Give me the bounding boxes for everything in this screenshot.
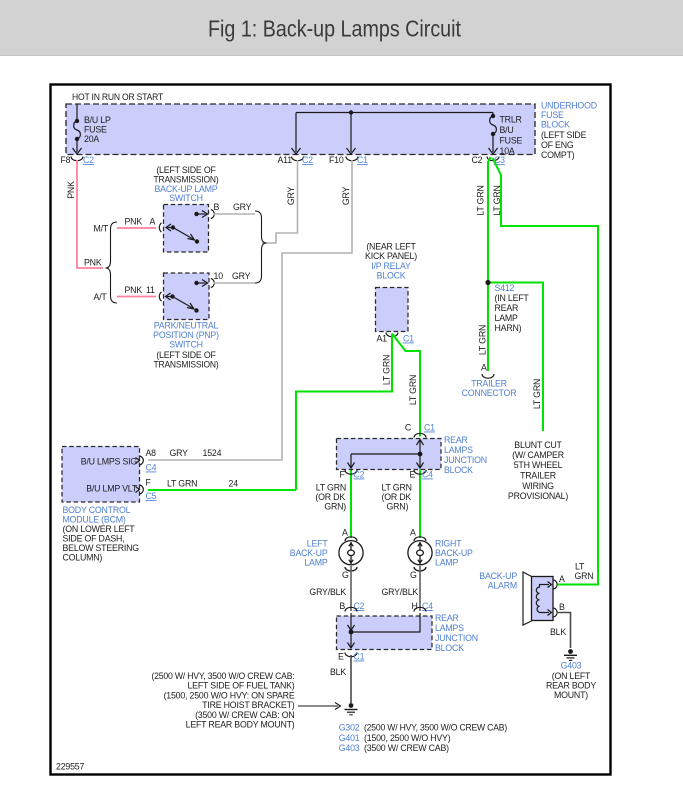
svg-text:MOUNT): MOUNT) — [554, 690, 588, 700]
svg-text:11: 11 — [146, 285, 155, 295]
svg-text:C5: C5 — [146, 491, 157, 501]
svg-text:TRAILER: TRAILER — [520, 471, 556, 481]
svg-text:(NEAR LEFT: (NEAR LEFT — [366, 242, 416, 252]
svg-text:LAMP: LAMP — [435, 558, 458, 568]
svg-text:C2: C2 — [472, 155, 483, 165]
svg-text:10: 10 — [214, 271, 224, 281]
svg-text:MODULE (BCM): MODULE (BCM) — [63, 515, 126, 525]
svg-text:BELOW STEERING: BELOW STEERING — [63, 543, 140, 553]
svg-text:B/U LMPS SIG: B/U LMPS SIG — [81, 457, 138, 467]
svg-text:LT GRN: LT GRN — [478, 325, 488, 355]
svg-text:C: C — [405, 423, 412, 433]
svg-text:REAR: REAR — [435, 613, 459, 623]
svg-text:Fig 1: Back-up Lamps Circuit: Fig 1: Back-up Lamps Circuit — [208, 16, 462, 42]
svg-text:G: G — [342, 570, 349, 580]
svg-text:A11: A11 — [278, 155, 293, 165]
svg-text:F10: F10 — [329, 155, 344, 165]
svg-text:UNDERHOOD: UNDERHOOD — [541, 101, 597, 111]
svg-text:LAMPS: LAMPS — [444, 445, 473, 455]
svg-text:GRY: GRY — [232, 271, 251, 281]
svg-text:LT: LT — [575, 562, 585, 572]
svg-text:(ON LEFT: (ON LEFT — [552, 671, 591, 681]
svg-text:HOT IN RUN OR START: HOT IN RUN OR START — [72, 92, 164, 102]
svg-text:BLOCK: BLOCK — [541, 120, 570, 130]
svg-text:TIRE HOIST BRACKET): TIRE HOIST BRACKET) — [202, 700, 295, 710]
svg-text:REAR: REAR — [444, 435, 468, 445]
svg-text:24: 24 — [229, 479, 239, 489]
svg-text:229557: 229557 — [56, 762, 84, 772]
svg-text:PNK: PNK — [84, 258, 102, 268]
svg-text:JUNCTION: JUNCTION — [444, 455, 487, 465]
svg-text:LT GRN: LT GRN — [382, 355, 392, 385]
svg-text:(LEFT SIDE: (LEFT SIDE — [541, 130, 587, 140]
svg-text:(IN LEFT: (IN LEFT — [495, 293, 530, 303]
svg-text:LT GRN: LT GRN — [408, 375, 418, 405]
svg-text:B/U: B/U — [500, 125, 514, 135]
svg-text:LAMP: LAMP — [304, 558, 327, 568]
svg-text:LT GRN: LT GRN — [532, 379, 542, 409]
svg-text:PNK: PNK — [125, 217, 143, 227]
svg-text:POSITION (PNP): POSITION (PNP) — [153, 330, 219, 340]
svg-text:C1: C1 — [357, 155, 368, 165]
svg-text:FUSE: FUSE — [500, 136, 523, 146]
svg-text:SIDE OF DASH,: SIDE OF DASH, — [63, 534, 125, 544]
svg-text:OF ENG: OF ENG — [541, 140, 574, 150]
svg-text:(LEFT SIDE OF: (LEFT SIDE OF — [156, 165, 216, 175]
svg-text:A: A — [559, 574, 565, 584]
svg-text:GRN): GRN) — [324, 502, 346, 512]
svg-text:LEFT REAR BODY MOUNT): LEFT REAR BODY MOUNT) — [186, 720, 295, 730]
svg-text:C1: C1 — [424, 423, 435, 433]
svg-text:BLOCK: BLOCK — [435, 643, 464, 653]
svg-text:A: A — [342, 528, 348, 538]
svg-text:LEFT SIDE OF FUEL TANK): LEFT SIDE OF FUEL TANK) — [187, 681, 294, 691]
svg-text:F: F — [340, 470, 346, 480]
svg-text:PROVISIONAL): PROVISIONAL) — [508, 491, 568, 501]
svg-text:LT GRN: LT GRN — [316, 483, 346, 493]
svg-text:SWITCH: SWITCH — [169, 340, 203, 350]
svg-text:G403: G403 — [561, 661, 582, 671]
svg-text:C4: C4 — [422, 601, 433, 611]
svg-text:A: A — [410, 528, 416, 538]
svg-text:C1: C1 — [354, 652, 365, 662]
svg-text:(1500, 2500 W/O HVY): (1500, 2500 W/O HVY) — [364, 733, 451, 743]
svg-text:(W/ CAMPER: (W/ CAMPER — [512, 450, 564, 460]
svg-text:A/T: A/T — [94, 292, 108, 302]
svg-text:(LEFT SIDE OF: (LEFT SIDE OF — [156, 350, 216, 360]
svg-text:A8: A8 — [146, 448, 157, 458]
svg-text:RIGHT: RIGHT — [435, 539, 462, 549]
svg-text:(3500 W/ CREW CAB): (3500 W/ CREW CAB) — [364, 743, 449, 753]
svg-text:FUSE: FUSE — [84, 125, 107, 135]
svg-text:TRAILER: TRAILER — [471, 379, 507, 389]
svg-text:ALARM: ALARM — [488, 581, 517, 591]
svg-text:C4: C4 — [146, 463, 157, 473]
svg-text:LAMP: LAMP — [495, 313, 518, 323]
svg-text:G401: G401 — [339, 733, 360, 743]
svg-text:A1: A1 — [377, 334, 388, 344]
svg-text:G302: G302 — [339, 723, 360, 733]
svg-text:F8: F8 — [61, 155, 71, 165]
svg-text:LT GRN: LT GRN — [476, 185, 486, 215]
svg-text:C2: C2 — [354, 601, 365, 611]
svg-text:GRY/BLK: GRY/BLK — [382, 587, 419, 597]
svg-text:REAR: REAR — [495, 303, 519, 313]
svg-text:GRY: GRY — [170, 448, 189, 458]
svg-text:1524: 1524 — [203, 448, 222, 458]
svg-text:BACK-UP: BACK-UP — [435, 548, 473, 558]
svg-text:LT GRN: LT GRN — [382, 483, 412, 493]
svg-text:A: A — [481, 363, 487, 373]
svg-text:LT GRN: LT GRN — [167, 479, 197, 489]
svg-text:A: A — [150, 217, 156, 227]
svg-text:TRANSMISSION): TRANSMISSION) — [154, 175, 219, 185]
svg-text:COMPT): COMPT) — [541, 150, 575, 160]
svg-text:BLUNT CUT: BLUNT CUT — [514, 440, 562, 450]
svg-text:C2: C2 — [354, 470, 365, 480]
svg-text:I/P RELAY: I/P RELAY — [371, 261, 411, 271]
svg-text:B/U LMP VLT: B/U LMP VLT — [86, 484, 138, 494]
svg-text:C1: C1 — [403, 334, 414, 344]
svg-text:CONNECTOR: CONNECTOR — [462, 388, 517, 398]
svg-text:F: F — [146, 478, 152, 488]
svg-text:E: E — [338, 652, 344, 662]
svg-text:PARK/NEUTRAL: PARK/NEUTRAL — [154, 321, 219, 331]
svg-text:B/U LP: B/U LP — [84, 115, 111, 125]
svg-text:BACK-UP: BACK-UP — [290, 548, 328, 558]
svg-text:B: B — [214, 202, 220, 212]
svg-text:BACK-UP: BACK-UP — [479, 571, 517, 581]
svg-text:20A: 20A — [84, 134, 99, 144]
svg-text:C2: C2 — [302, 155, 313, 165]
svg-text:BLK: BLK — [550, 627, 566, 637]
svg-text:TRLR: TRLR — [500, 115, 522, 125]
svg-text:BLOCK: BLOCK — [377, 271, 406, 281]
svg-text:GRY/BLK: GRY/BLK — [309, 587, 346, 597]
svg-text:G: G — [410, 570, 417, 580]
svg-text:BODY CONTROL: BODY CONTROL — [63, 505, 131, 515]
svg-text:REAR BODY: REAR BODY — [546, 681, 596, 691]
svg-text:JUNCTION: JUNCTION — [435, 633, 478, 643]
svg-text:(1500, 2500 W/O HVY: ON SPARE: (1500, 2500 W/O HVY: ON SPARE — [164, 690, 295, 700]
svg-text:TRANSMISSION): TRANSMISSION) — [154, 360, 219, 370]
svg-text:GRY: GRY — [286, 187, 296, 206]
svg-text:S412: S412 — [495, 283, 515, 293]
svg-text:BLOCK: BLOCK — [444, 465, 473, 475]
svg-text:GRY: GRY — [233, 202, 252, 212]
svg-text:COLUMN): COLUMN) — [63, 553, 103, 563]
svg-text:GRN: GRN — [575, 571, 594, 581]
svg-text:GRY: GRY — [341, 187, 351, 206]
svg-text:LT GRN: LT GRN — [492, 185, 502, 215]
svg-text:LAMPS: LAMPS — [435, 623, 464, 633]
svg-text:5TH WHEEL: 5TH WHEEL — [514, 460, 563, 470]
svg-text:B: B — [559, 602, 565, 612]
svg-text:LEFT: LEFT — [307, 539, 329, 549]
svg-text:G403: G403 — [339, 743, 360, 753]
svg-text:B: B — [339, 601, 345, 611]
svg-text:BLK: BLK — [330, 667, 346, 677]
svg-text:HARN): HARN) — [495, 323, 522, 333]
svg-text:PNK: PNK — [125, 285, 143, 295]
svg-text:E: E — [410, 470, 416, 480]
svg-text:(2500 W/ HVY, 3500 W/O CREW CA: (2500 W/ HVY, 3500 W/O CREW CAB: — [152, 671, 295, 681]
svg-text:(OR DK: (OR DK — [382, 492, 412, 502]
svg-text:C2: C2 — [83, 155, 94, 165]
svg-text:WIRING: WIRING — [522, 481, 554, 491]
svg-text:(3500 W/ CREW CAB: ON: (3500 W/ CREW CAB: ON — [195, 710, 294, 720]
svg-text:KICK PANEL): KICK PANEL) — [365, 251, 417, 261]
svg-text:C4: C4 — [422, 470, 433, 480]
svg-text:M/T: M/T — [94, 224, 109, 234]
svg-text:PNK: PNK — [66, 181, 76, 199]
svg-text:FUSE: FUSE — [541, 110, 564, 120]
svg-text:(OR DK: (OR DK — [315, 492, 345, 502]
svg-text:GRN): GRN) — [387, 502, 409, 512]
svg-text:SWITCH: SWITCH — [169, 193, 203, 203]
svg-text:(ON LOWER LEFT: (ON LOWER LEFT — [63, 524, 136, 534]
svg-text:(2500 W/ HVY, 3500 W/O CREW CA: (2500 W/ HVY, 3500 W/O CREW CAB) — [364, 723, 507, 733]
